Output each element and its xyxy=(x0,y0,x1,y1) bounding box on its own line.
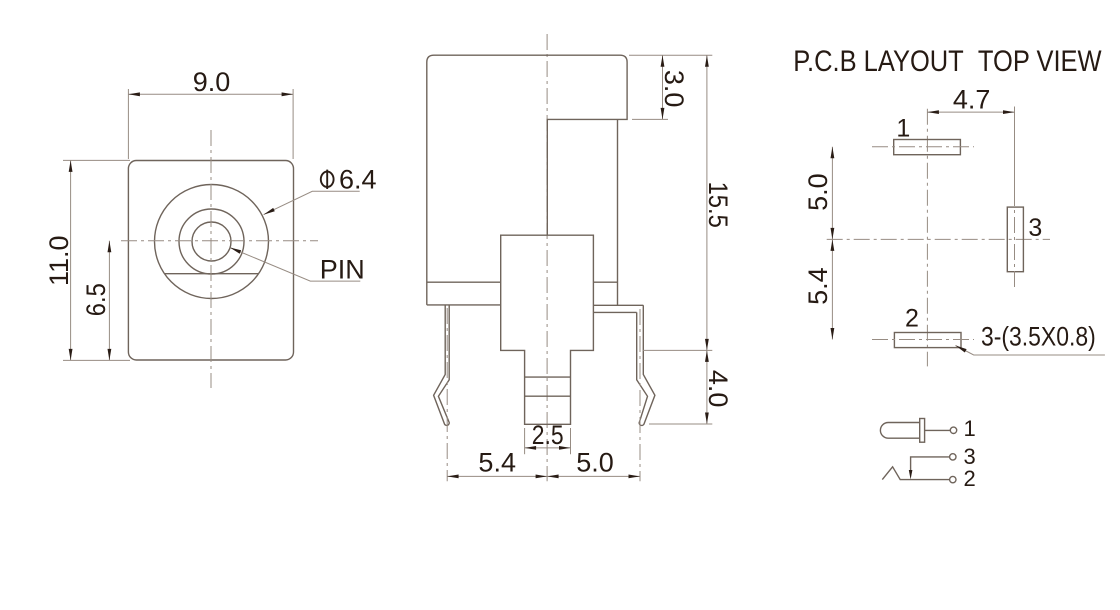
svg-text:2: 2 xyxy=(964,466,976,491)
dim 2.5 extension lines xyxy=(524,428,526,454)
leader 3-(3.5X0.8) xyxy=(956,346,1105,356)
dim 9.0 arrows xyxy=(128,92,140,96)
dim 15.5 arrows xyxy=(705,55,709,66)
arm bottom right xyxy=(593,311,636,313)
terminal 2 xyxy=(950,476,956,482)
dim 3.0 bottom extension xyxy=(632,118,668,120)
dim 2.5 line xyxy=(525,447,571,449)
svg-text:6.5: 6.5 xyxy=(82,283,112,316)
dim 4.0 line xyxy=(706,350,708,424)
inner pin circle xyxy=(192,222,231,261)
dim 3.0 line xyxy=(662,55,664,119)
dim 4.7 line xyxy=(927,111,1014,113)
svg-text:5.0: 5.0 xyxy=(803,173,833,211)
body flange boundary right xyxy=(593,281,617,283)
svg-text:9.0: 9.0 xyxy=(193,67,231,97)
svg-text:5.4: 5.4 xyxy=(803,267,833,305)
label diameter 6.4 text xyxy=(321,170,334,189)
center block with pin shaft xyxy=(501,235,594,424)
plug barrel xyxy=(880,423,919,439)
svg-text:5.0: 5.0 xyxy=(576,448,614,478)
pad 3 xyxy=(1007,207,1023,272)
dim 15.5 4.0 shared extension xyxy=(643,349,713,351)
flange bottom right with arm xyxy=(593,304,643,306)
dim 11.0 line xyxy=(70,160,72,360)
leader PIN xyxy=(230,248,360,282)
dim 4.0 arrows xyxy=(705,350,709,362)
svg-text:6.4: 6.4 xyxy=(339,165,377,195)
svg-text:1: 1 xyxy=(964,416,976,441)
svg-text:2.5: 2.5 xyxy=(532,420,564,450)
dim 5.4 arrows xyxy=(831,239,835,251)
plug tip plate xyxy=(920,419,925,443)
dim 9.0 line xyxy=(128,93,293,95)
svg-text:2: 2 xyxy=(905,305,919,333)
dim 11.0 arrows xyxy=(69,160,73,172)
flange bottom left xyxy=(427,304,501,306)
wire pin 2 with lever xyxy=(882,467,949,480)
leader diameter 6.4 xyxy=(264,191,360,214)
horizontal centerline xyxy=(121,240,318,242)
dim 11.0 extension lines xyxy=(63,159,130,161)
dim 5.4 5.0 arrows xyxy=(447,475,459,479)
dim 5.0 arrows xyxy=(831,147,835,159)
right leg xyxy=(637,305,655,425)
pad 1 centerline xyxy=(872,146,974,148)
dim 4.7 arrows xyxy=(927,110,939,114)
pad 2 centerline xyxy=(872,339,974,341)
outer barrel circle xyxy=(155,185,269,299)
svg-text:4.7: 4.7 xyxy=(953,85,991,115)
terminal 3 xyxy=(950,454,956,460)
dim 3.0 15.5 top extension xyxy=(629,54,712,56)
front body outline xyxy=(128,161,293,361)
dim 4.0 bottom extension xyxy=(649,423,712,425)
terminal 1 xyxy=(950,427,956,433)
wire pin 3 xyxy=(911,457,950,474)
dim 15.5 line xyxy=(706,55,708,350)
pad 3 centerline xyxy=(1014,107,1016,191)
housing outline with top cap xyxy=(427,55,627,305)
svg-text:5.4: 5.4 xyxy=(478,448,516,478)
dim 6.5 line xyxy=(108,241,110,361)
dim 2.5 arrows xyxy=(525,446,537,450)
shaft line 1 xyxy=(525,376,571,378)
right leg centerline xyxy=(639,309,641,481)
vertical centerline xyxy=(210,130,212,388)
vertical centerline xyxy=(546,34,548,481)
dim 6.5 arrows xyxy=(108,241,112,253)
left leg xyxy=(434,305,450,426)
svg-text:1: 1 xyxy=(896,115,910,143)
contact arrow xyxy=(909,470,913,480)
pad 2 xyxy=(894,333,961,348)
dim 9.0 extension lines xyxy=(127,89,129,159)
svg-text:3: 3 xyxy=(1028,214,1042,242)
svg-text:3.0: 3.0 xyxy=(659,70,689,108)
left leg centerline xyxy=(446,308,448,481)
dim 5.0 5.4 line xyxy=(831,147,833,340)
pad 1 xyxy=(894,140,961,155)
pcb horizontal centerline xyxy=(827,238,1050,240)
chord contact line xyxy=(165,273,259,275)
svg-text:3-(3.5X0.8): 3-(3.5X0.8) xyxy=(981,322,1096,352)
housing right edge xyxy=(617,119,619,305)
svg-text:4.0: 4.0 xyxy=(703,370,733,408)
body flange boundary left xyxy=(427,281,501,283)
wire pin 1 xyxy=(925,429,951,431)
svg-text:15.5: 15.5 xyxy=(703,182,733,228)
middle circle xyxy=(179,209,244,274)
svg-text:11.0: 11.0 xyxy=(44,235,74,286)
dim 3.0 arrows xyxy=(661,55,665,66)
svg-text:PIN: PIN xyxy=(320,255,365,285)
svg-text:P.C.B LAYOUT TOP VIEW: P.C.B LAYOUT TOP VIEW xyxy=(793,44,1102,77)
dim 5.4 5.0 line xyxy=(447,475,640,477)
pcb vertical centerline xyxy=(926,109,928,367)
shaft line 2 xyxy=(525,395,571,397)
